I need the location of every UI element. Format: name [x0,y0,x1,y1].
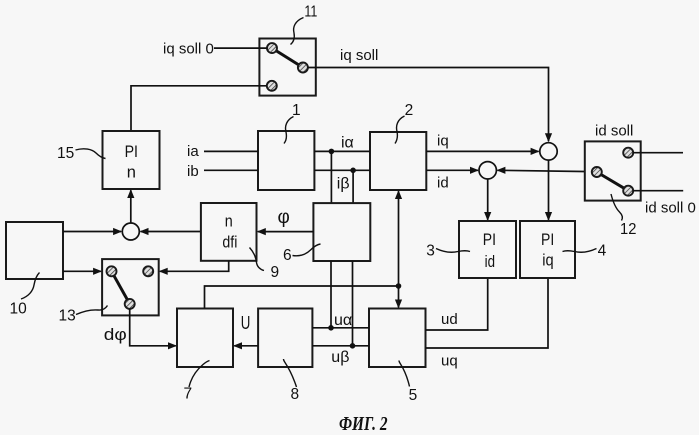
junction dot u-alpha [328,325,334,331]
leader line for 12 [611,194,622,221]
arrowhead down into block 5 top [395,300,402,309]
label 5 [409,387,418,404]
svg-text:PI: PI [483,231,496,249]
label 12 [620,221,636,238]
label ud [441,311,458,328]
leader line for 13 [76,306,108,315]
svg-text:id soll 0: id soll 0 [645,200,696,217]
label iq soll [340,47,378,64]
svg-text:uq: uq [441,353,458,370]
label 6 [283,247,292,264]
label i-alpha [341,134,354,151]
wire ib input [204,169,258,171]
svg-text:dfi: dfi [222,233,237,251]
block 2 [370,132,426,190]
switch 11 contact middle-right [298,63,308,73]
wire ud from block 5 to block 3 [426,278,488,330]
wire u-beta horizontal between block 8 and block 5 [312,345,369,347]
svg-text:n: n [225,213,233,231]
block 4 PI iq [520,221,575,278]
svg-text:5: 5 [409,387,418,404]
junction dot u-beta [350,343,356,349]
arrowhead into block 3 top [484,212,491,221]
switch 12 contact top-right [623,148,633,158]
wire dfi from block 9 down and left into switch 13 [160,261,229,272]
svg-text:iβ: iβ [337,176,350,193]
label iq soll 0 [163,41,214,58]
summing node C3 (id) [479,162,496,179]
svg-text:ud: ud [441,311,458,328]
arrowhead phi into block 9 right [257,228,266,235]
label 10 [10,301,28,318]
leader line for 3 [436,249,470,253]
leader line for 9 [250,248,265,271]
arrowhead into C3 right [496,167,505,174]
arrowhead into block 15 bottom [127,189,134,198]
switch block 13 [102,259,159,315]
label 4 [598,243,607,260]
leader line for 1 [284,117,294,144]
label 2 [405,102,414,119]
switch 12 lever [597,172,628,191]
label 1 [292,102,301,119]
svg-text:10: 10 [10,301,28,318]
label u-alpha [334,312,352,329]
label 11 [304,3,317,20]
wire vertical double arrow between block 2 and block 5 [398,191,400,307]
switch 13 contact top-left [107,266,117,276]
svg-text:7: 7 [184,386,193,403]
svg-text:id: id [437,175,449,192]
wire from switch 12 middle contact to C3 [497,170,592,171]
label iq [437,133,449,150]
block 3 PI id [459,221,516,278]
label phi [278,207,290,228]
wire block 9 to C1 [141,231,201,233]
leader line for 4 [563,249,597,253]
wire iq from block 2 to summing node C2 [426,150,538,152]
svg-text:ia: ia [187,143,199,160]
leader line for 7 [189,361,210,388]
wire u-alpha vertical from block 6 down [330,261,332,328]
leader line for 8 [284,359,297,387]
wire uq from block 5 to block 4 [426,278,549,348]
caption FIG. 2 [339,414,388,435]
svg-text:n: n [127,163,136,181]
label U [241,312,251,333]
arrowhead into C1 right [140,228,149,235]
label i-beta [337,176,350,193]
block 7 [177,309,233,368]
wire iq soll 0 input to contact [214,47,267,49]
label 8 [291,386,300,403]
wire i-beta tap down into block 6 [352,170,354,203]
label ia [187,143,199,160]
svg-text:13: 13 [59,308,76,325]
block 6 [313,203,370,261]
arrowhead into C1 left [113,228,122,235]
leader line for 10 [21,273,40,300]
wire u-beta vertical from block 6 down [352,261,354,346]
arrowhead U into block 7 right [233,342,242,349]
switch 11 lever [272,48,303,67]
label ib [187,163,199,180]
label 3 [426,243,435,260]
arrowhead down into summing node C2 [545,133,552,142]
block 1 [258,131,314,190]
svg-text:iq soll 0: iq soll 0 [163,41,214,58]
label 13 [59,308,76,325]
wire iq soll output from switch 11 to down to summing node C2 [308,68,549,142]
svg-text:8: 8 [291,386,300,403]
wire u-alpha horizontal between block 8 and block 5 [312,327,369,329]
wire i-alpha tap down into block 6 [330,151,332,203]
block 9 n dfi [201,203,257,261]
label 7 [184,386,193,403]
switch 13 lever [112,271,130,304]
svg-text:6: 6 [283,247,292,264]
wire C1 up into block 15 [130,190,132,223]
switch block 11 [259,39,315,96]
wire from PI n output up to switch 11 bottom-left contact [131,86,267,131]
switch 13 contact bottom-center [125,299,135,309]
summing node C1 [122,223,139,240]
leader line for 6 [293,244,321,256]
label id soll 0 [645,200,696,217]
summing node C2 (iq) [540,143,557,160]
svg-text:iq: iq [542,252,553,270]
wire id from block 2 to summing node C3 [426,169,478,171]
svg-text:id: id [485,253,495,271]
block 10 [6,222,63,279]
junction dot on i-beta [350,168,356,174]
arrowhead into C3 left [470,167,479,174]
wire ia input [204,150,258,152]
label uq [441,353,458,370]
switch 12 contact bottom-right [623,186,633,196]
wire d-phi from switch 13 down then right into block 7 [130,309,176,346]
arrowhead into switch 13 left [93,268,102,275]
label 15 [57,145,74,162]
svg-text:iq: iq [437,133,449,150]
leader line for 5 [399,361,410,387]
arrowhead into switch 13 right [159,268,168,275]
label 9 [271,264,280,281]
label u-beta [331,349,349,366]
leader line for 15 [76,149,106,159]
svg-text:2: 2 [405,102,414,119]
block 8 [258,309,312,368]
svg-text:3: 3 [426,243,435,260]
svg-text:φ: φ [278,207,290,228]
wire id soll input right of switch 12 top contact [633,152,683,154]
label id soll [595,123,633,140]
svg-text:12: 12 [620,221,636,238]
switch 13 contact top-right [143,266,153,276]
wire C3 down into block 3 [487,179,489,220]
arrowhead into C2 left [531,148,540,155]
svg-text:iq soll: iq soll [340,47,378,64]
svg-text:15: 15 [57,145,74,162]
block 5 [369,309,426,368]
switch block 12 [585,141,641,200]
block 15 PI n [103,131,160,189]
leader line for 2 [395,116,405,144]
svg-text:iα: iα [341,134,354,151]
wire id soll 0 input right of switch 12 bottom contact [633,190,683,192]
svg-text:9: 9 [271,264,280,281]
svg-text:U: U [241,312,251,333]
junction dot on vertical at phi tap [396,283,402,289]
wire C2 down into block 4 [548,160,550,220]
label id [437,175,449,192]
svg-text:PI: PI [541,231,554,249]
label d-phi [104,325,127,344]
svg-text:PI: PI [125,143,138,161]
arrowhead d-phi into block 7 left [168,342,177,349]
leader line for 11 [291,18,304,45]
switch 11 contact bottom-left [267,81,277,91]
arrowhead into block 4 top [545,212,552,221]
wire phi from block 6 to block 9 [258,231,314,233]
svg-text:4: 4 [598,243,607,260]
svg-text:11: 11 [304,3,317,20]
switch 12 contact middle-left [592,167,602,177]
svg-text:uβ: uβ [331,349,349,366]
wire block 10 to switch 13 [63,270,101,272]
switch 11 contact top-left [267,43,277,53]
svg-text:ФИГ. 2: ФИГ. 2 [339,414,388,435]
svg-text:id soll: id soll [595,123,633,140]
arrowhead up into block 2 bottom [395,190,402,199]
wire i-beta from block 1 to block 2 [314,169,370,171]
svg-text:ib: ib [187,163,199,180]
wire block 10 to C1 [63,231,121,233]
wire i-alpha from block 1 to block 2 [314,150,370,152]
wire phi tap from vertical to block 7 top [205,286,399,309]
svg-text:dφ: dφ [104,325,127,344]
wire U from block 8 to block 7 [234,345,258,347]
svg-text:uα: uα [334,312,352,329]
junction dot on i-alpha [329,149,335,155]
